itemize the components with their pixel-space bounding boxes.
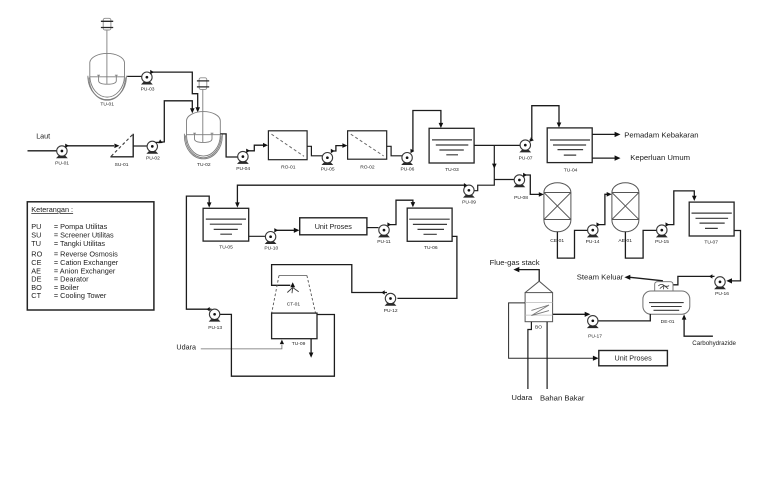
svg-text:Flue-gas stack: Flue-gas stack [490,258,540,267]
svg-text:Keperluan Umum: Keperluan Umum [630,153,690,162]
svg-text:PU-07: PU-07 [519,155,533,161]
wire CE-01 to PU-14 [557,230,587,258]
deaerator DE-01 [643,282,690,326]
svg-text:BO: BO [535,325,542,331]
svg-text:PU-08: PU-08 [514,195,528,201]
svg-text:PU-17: PU-17 [588,334,602,340]
pump PU-01 [55,146,69,167]
wire Steam Keluar from DE-01 [624,275,663,281]
svg-text:PU-09: PU-09 [462,200,476,206]
wire PU-11 to TU-06 [387,200,415,227]
pump PU-03 [141,72,155,92]
svg-text:TU-02: TU-02 [197,162,211,168]
tank TU-04 [547,128,592,173]
cation exchanger CE-01 [544,183,571,244]
svg-text:Steam Keluar: Steam Keluar [577,272,624,281]
pump PU-16 [714,277,729,297]
pump PU-13 [208,309,222,331]
svg-text:TU-03: TU-03 [445,167,459,173]
svg-text:Carbohydrazide: Carbohydrazide [692,340,736,347]
wire PU-14 to AE-01 [597,192,612,227]
boiler BO [525,281,553,330]
svg-text:RO-02: RO-02 [360,165,375,171]
wire Udara to boiler burner [528,322,532,389]
agitator motor M1 on TU-01 [101,18,113,30]
pump PU-04 [236,151,250,171]
wire boiler to Unit Proses (steam header) [509,303,599,361]
wire PU-02 to TU-02 [156,101,195,144]
pump PU-06 [400,153,414,173]
wire TU-05 to PU-10 [249,235,266,237]
pump PU-02 [146,141,160,161]
svg-text:CT: CT [31,291,41,300]
wire TU-04 to Pemadam Kebakaran [592,132,620,137]
svg-text:TU-09: TU-09 [292,341,306,347]
svg-text:DE-01: DE-01 [661,319,675,325]
wire Unit Proses to PU-11 [367,227,379,229]
svg-text:Laut: Laut [36,132,50,141]
pump PU-10 [264,232,278,252]
process block Unit Proses (cooling loop) [300,218,367,235]
wire PU-12 to CT-01 [272,265,387,295]
process block Unit Proses (steam user) [599,351,668,366]
wire PU-07 to TU-04 [530,106,562,142]
svg-text:PU-05: PU-05 [321,166,335,172]
pump PU-17 [587,316,602,340]
svg-text:PU-15: PU-15 [655,239,669,245]
svg-text:Bahan Bakar: Bahan Bakar [540,394,585,403]
svg-text:PU-12: PU-12 [384,308,398,314]
svg-text:PU-11: PU-11 [377,239,391,245]
wire PU-04 to RO-01 [246,143,268,153]
anion exchanger AE-01 [612,183,639,244]
svg-text:PU-10: PU-10 [264,245,278,251]
wire Bahan Bakar to boiler burner [546,322,548,389]
pump PU-14 [586,225,600,245]
wire RO-01 to PU-05 [307,146,322,156]
svg-text:Udara: Udara [176,343,196,352]
wire PU-15 to TU-07 [666,191,697,227]
svg-text:= Cooling Tower: = Cooling Tower [54,291,107,300]
pump PU-09 [462,185,476,206]
svg-text:TU-01: TU-01 [100,102,114,108]
basin TU-09 [272,313,317,347]
pump PU-12 [384,293,398,314]
wire Udara to basin [201,340,284,349]
svg-text:CT-01: CT-01 [287,302,301,308]
legend box Keterangan [27,202,154,310]
svg-text:PU-14: PU-14 [586,239,600,245]
pump PU-05 [321,153,335,173]
svg-text:SU-01: SU-01 [115,162,129,168]
wire boiler steam to PU-17 [553,312,591,317]
svg-text:TU-05: TU-05 [219,244,233,250]
wire TU-02 to PU-04 [220,134,238,157]
svg-text:PU-04: PU-04 [236,166,250,172]
wire TU-03 outlet to PU-07 with junction [474,145,520,190]
wire PU-10 to Unit Proses [274,228,299,233]
agitator motor M2 on TU-02 [197,78,209,90]
svg-text:PU-02: PU-02 [146,156,160,162]
tank TU-01 [88,30,127,100]
svg-text:PU-03: PU-03 [141,86,155,92]
wire RO-02 to PU-06 [387,146,402,156]
svg-text:RO-01: RO-01 [281,165,296,171]
wire flue-gas stack [513,267,539,281]
cooling tower CT-01 [272,276,316,314]
wire TU-06 to PU-12 [397,236,457,298]
wire basin blowdown [309,339,314,358]
screener SU-01 [110,134,133,168]
pump PU-08 [514,175,529,201]
wire SU-01 to PU-02 [133,145,147,147]
pump PU-11 [377,225,391,245]
svg-text:PU-01: PU-01 [55,160,69,166]
wire TU-07 to PU-16 [726,231,740,284]
wire PU-06 to TU-03 [411,111,444,154]
pump PU-15 [655,225,669,245]
wire Carbohydrazide to DE-01 [682,314,713,336]
wire PU-13 to TU-05 [186,196,211,311]
svg-text:PU-13: PU-13 [208,325,222,331]
svg-text:Unit Proses: Unit Proses [615,354,653,363]
svg-text:Keterangan :: Keterangan : [31,205,73,214]
tank TU-07 [689,202,734,245]
tank TU-05 [203,208,249,250]
wire TU-09 to PU-13 [220,314,334,376]
wire DE-01 to PU-17 [599,314,651,321]
wire TU-01 to PU-03 [127,75,142,77]
wire PU-08 to CE-01 [523,173,544,197]
wire Laut inlet [28,150,57,152]
reverse osmosis RO-01 [268,131,307,171]
pump PU-07 [519,140,533,161]
tank TU-06 [407,208,452,251]
reverse osmosis RO-02 [348,131,387,171]
wire TU-04 to Keperluan Umum [592,155,620,160]
wire PU-03 to TU-02 [150,70,200,113]
svg-text:Udara: Udara [511,393,533,402]
wire AE-01 to PU-15 [625,230,656,258]
svg-text:TU-04: TU-04 [564,167,578,173]
svg-text:Pemadam Kebakaran: Pemadam Kebakaran [624,130,698,139]
svg-text:PU-16: PU-16 [715,291,729,297]
wire PU-09 to TU-05 [235,183,467,208]
tank TU-02 [184,90,222,159]
svg-text:PU-06: PU-06 [400,166,414,172]
svg-text:TU-06: TU-06 [424,245,438,251]
svg-text:TU: TU [31,239,41,248]
wire PU-01 to SU-01 [65,144,119,149]
wire PU-05 to RO-02 [331,143,348,153]
svg-text:= Tangki Utilitas: = Tangki Utilitas [54,239,106,248]
wire PU-16 to DE-01 dome [673,274,714,285]
svg-text:TU-07: TU-07 [704,240,718,246]
svg-text:Unit Proses: Unit Proses [315,222,353,231]
tank TU-03 [429,128,474,173]
